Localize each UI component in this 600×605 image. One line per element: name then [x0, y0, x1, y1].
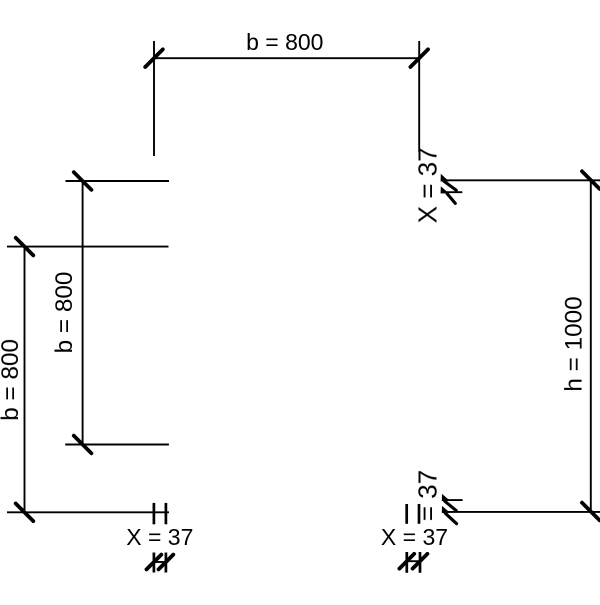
- svg-text:X = 37: X = 37: [126, 524, 193, 550]
- svg-text:b = 800: b = 800: [246, 29, 323, 55]
- svg-text:X = 37: X = 37: [381, 524, 448, 550]
- svg-text:h = 1000: h = 1000: [561, 296, 588, 391]
- svg-text:b = 800: b = 800: [51, 272, 78, 354]
- svg-text:X = 37: X = 37: [413, 147, 443, 223]
- svg-text:b = 800: b = 800: [0, 339, 24, 421]
